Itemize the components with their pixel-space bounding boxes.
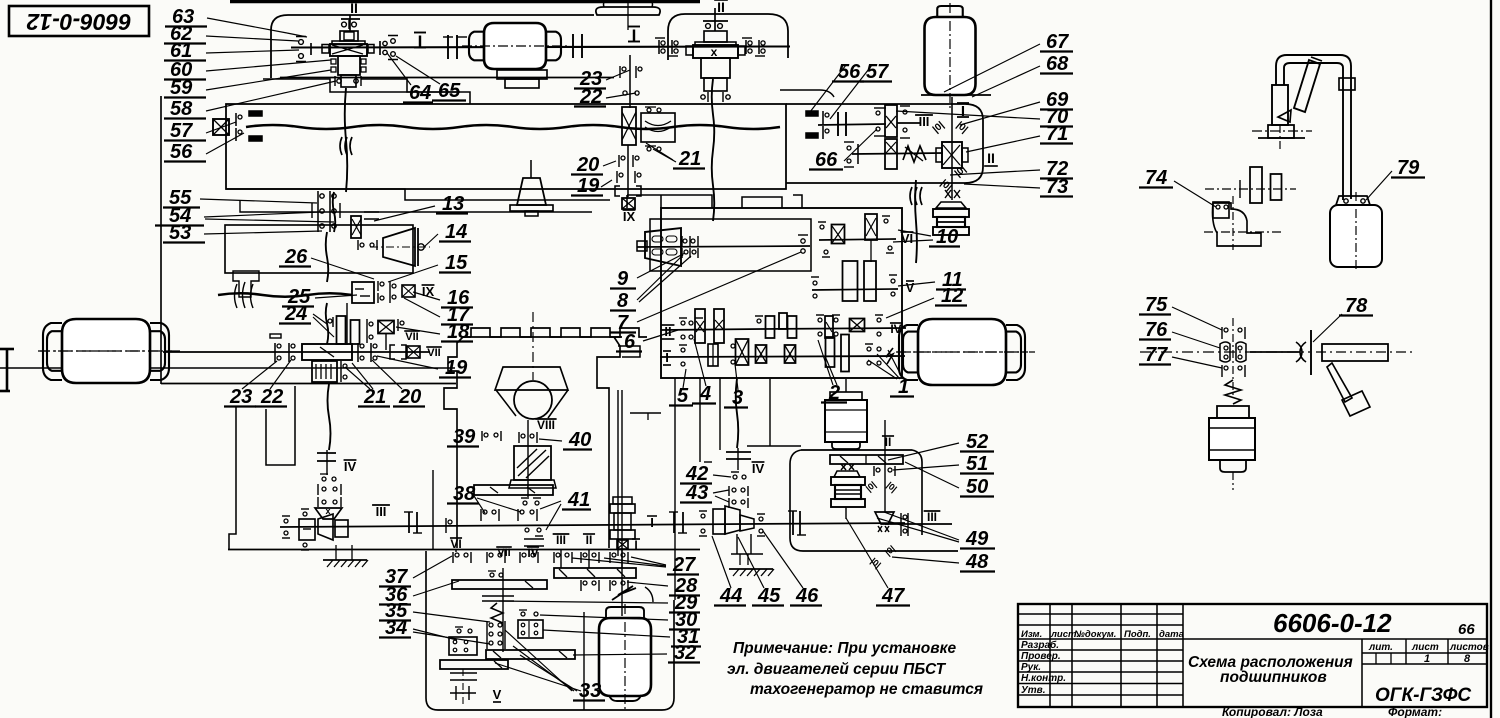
svg-text:33: 33	[579, 680, 601, 702]
svg-text:56: 56	[170, 141, 193, 163]
leader line	[200, 199, 317, 203]
feed box legs	[674, 378, 676, 600]
leader line	[546, 504, 561, 530]
svg-text:листов: листов	[1449, 642, 1489, 653]
scan artifact top edge	[230, 0, 700, 3]
bearing row under	[357, 240, 359, 250]
leader line	[896, 111, 1040, 119]
top bearing row	[1221, 327, 1223, 339]
leader line	[810, 65, 846, 112]
shaft stub and handle 78	[1250, 351, 1300, 353]
svg-text:71: 71	[1046, 123, 1068, 145]
svg-text:20: 20	[576, 154, 599, 176]
lit list listov row	[1361, 639, 1363, 707]
circles above bar1	[490, 573, 494, 577]
svg-text:Разраб.: Разраб.	[1021, 639, 1059, 651]
svg-text:39: 39	[453, 426, 476, 448]
leader line	[604, 558, 666, 566]
svg-text:48: 48	[965, 551, 989, 573]
svg-text:Рук.: Рук.	[1021, 662, 1041, 673]
pedestal under spindle band	[530, 160, 532, 178]
svg-text:лит.: лит.	[1368, 642, 1393, 653]
zigzag lightning	[612, 586, 636, 600]
leader line	[606, 93, 636, 98]
couplings below	[450, 672, 477, 674]
shaft with wavy break line	[218, 293, 352, 297]
left block with circles	[449, 637, 477, 655]
leader line	[830, 65, 872, 119]
svg-text:II: II	[664, 324, 671, 339]
bevel gearbox B1 upper rect	[340, 31, 358, 41]
top housing outline	[271, 15, 594, 78]
leader line	[311, 258, 374, 279]
gear/clutch X	[785, 345, 796, 363]
title block frame	[1018, 604, 1487, 707]
leader line	[388, 265, 438, 282]
B2 lower rects	[701, 58, 730, 78]
boxed bearing block	[518, 620, 543, 638]
leader line	[972, 66, 1040, 97]
leader line	[898, 282, 935, 286]
svg-text:21: 21	[678, 148, 701, 170]
svg-text:45: 45	[757, 585, 781, 607]
motor M8 detail	[1217, 406, 1249, 418]
leader line	[606, 70, 630, 80]
svg-text:27: 27	[672, 554, 696, 576]
motor centerline	[40, 350, 172, 352]
B2 bottom bearings	[701, 95, 705, 99]
bearing stack VII	[486, 621, 488, 631]
svg-text:78: 78	[1345, 295, 1368, 317]
bearings on II	[873, 466, 875, 476]
leader line	[1172, 307, 1222, 330]
leader line	[495, 663, 581, 691]
svg-text:III: III	[556, 533, 566, 547]
bottom long shaft	[280, 523, 905, 527]
svg-text:2: 2	[828, 382, 840, 404]
bevel gearbox B1 body	[332, 41, 365, 45]
leader line	[206, 81, 336, 111]
B1 bottom bearings	[337, 79, 341, 83]
lower shaft II in head	[852, 153, 943, 154]
gear	[864, 261, 876, 301]
leader line	[572, 558, 666, 567]
break arcs	[235, 282, 254, 308]
gear	[714, 309, 724, 343]
gear	[351, 320, 360, 344]
clutch block on wavy shaft	[352, 282, 374, 303]
motor centerline	[949, 3, 951, 109]
leader line	[893, 240, 933, 242]
bearing pair row1	[486, 552, 488, 563]
leader line	[631, 557, 666, 565]
svg-text:44: 44	[719, 585, 742, 607]
gear	[825, 316, 833, 338]
svg-text:13: 13	[442, 193, 464, 215]
spindle head housing	[226, 104, 786, 189]
bearing right of B1	[379, 41, 381, 55]
shaft II vertical right	[884, 420, 886, 512]
svg-text:VI: VI	[450, 537, 461, 551]
cone pulley with slots	[645, 228, 681, 266]
svg-text:3: 3	[732, 387, 743, 409]
bearing left of B1	[310, 43, 312, 55]
chain/belt wavy line	[328, 384, 331, 450]
leader line	[944, 44, 1040, 92]
bearing cross on M5 shaft	[617, 540, 628, 549]
V bearings	[813, 281, 817, 285]
svg-text:VII: VII	[405, 331, 418, 343]
brush block below clutch	[312, 361, 337, 382]
middle double bearing	[1220, 342, 1230, 362]
leader line	[242, 361, 277, 389]
leader line	[964, 184, 1040, 188]
gear pair VI	[819, 239, 896, 240]
variator plate bearings	[645, 106, 656, 108]
leader line	[313, 314, 327, 324]
motor mount box	[225, 225, 413, 273]
leader line	[499, 601, 668, 603]
gear	[695, 309, 705, 343]
chain/belt wavy line	[345, 88, 348, 192]
bearings left of B2	[658, 40, 660, 54]
tachogenerator T1 under bevel	[936, 202, 966, 208]
leader line	[505, 630, 572, 691]
leader line	[413, 581, 459, 596]
leader line	[520, 655, 577, 691]
left bearings of II	[847, 146, 851, 150]
motor centerline	[624, 604, 626, 710]
leader line	[206, 122, 236, 133]
svg-text:47: 47	[881, 585, 905, 607]
detail: elbow fitting 74	[1205, 188, 1296, 190]
svg-text:19: 19	[445, 357, 468, 379]
chain/belt wavy line	[915, 180, 917, 263]
svg-text:15: 15	[445, 252, 468, 274]
svg-text:IV: IV	[344, 459, 357, 474]
break mark	[340, 137, 342, 155]
svg-text:40: 40	[568, 429, 591, 451]
circles below	[525, 528, 529, 532]
coupling	[572, 34, 574, 58]
svg-text:№докум.: №докум.	[1074, 629, 1116, 640]
bevel gearbox B2 bearing bracket	[703, 20, 728, 22]
chain IV down coupling	[317, 452, 336, 454]
leader line	[374, 206, 435, 221]
leader line	[270, 360, 291, 389]
svg-text:19: 19	[577, 175, 600, 197]
bed to feedbox step	[630, 412, 661, 414]
svg-text:6606-0-12: 6606-0-12	[1273, 608, 1392, 638]
svg-text:64: 64	[409, 82, 431, 104]
gear	[788, 316, 797, 338]
gear	[351, 216, 361, 238]
leader line	[637, 255, 683, 300]
leader line	[352, 363, 373, 389]
support with hatching	[323, 559, 367, 561]
B1 lower rect with cage bearings	[338, 56, 360, 75]
bearings 39 marks	[481, 431, 483, 441]
svg-text:46: 46	[795, 585, 819, 607]
left gearbox outline	[160, 96, 162, 384]
left spindle bearing block	[213, 119, 229, 135]
bearing row 2 right	[580, 580, 582, 591]
gear	[337, 316, 346, 344]
bevel assembly to horizontal	[713, 509, 725, 534]
svg-text:22: 22	[579, 86, 602, 108]
gear	[1250, 167, 1262, 203]
svg-text:IX: IX	[623, 209, 636, 224]
leader line	[763, 531, 803, 588]
leader line	[540, 501, 561, 509]
leader line	[898, 230, 931, 236]
leader line	[413, 292, 440, 300]
dash-dot vertical	[462, 669, 464, 706]
gear bar VIII	[474, 485, 553, 495]
xx marks under	[841, 464, 854, 470]
bearing cross VII	[407, 346, 420, 358]
gear	[832, 225, 845, 244]
bearings under IV coupling	[322, 477, 326, 481]
gear bar 2	[486, 650, 575, 659]
left gearbox double bottom edge	[0, 367, 455, 369]
lower shaft from motor M4	[163, 351, 430, 353]
long clutch housing	[302, 344, 352, 360]
leader line	[396, 327, 440, 334]
leader line	[877, 354, 900, 379]
break mark	[910, 187, 912, 205]
leader line	[735, 364, 738, 390]
leader line	[413, 632, 490, 644]
chain/belt wavy line	[736, 379, 739, 448]
tachogenerator	[835, 485, 861, 499]
svg-text:Подп.: Подп.	[1124, 629, 1151, 640]
leader line	[206, 70, 331, 90]
svg-text:56: 56	[838, 61, 861, 83]
svg-text:52: 52	[966, 431, 988, 453]
svg-text:12: 12	[941, 285, 963, 307]
circles above right group	[523, 501, 527, 505]
leader line	[653, 149, 676, 162]
sheet corner stamp box with rotated drawing number 6606-0-12	[9, 6, 149, 36]
svg-text:4: 4	[699, 383, 711, 405]
slanted cylinder	[1294, 60, 1320, 112]
gear/clutch X	[850, 319, 865, 332]
leader line	[206, 60, 331, 71]
bevel gearbox B1 vertical shaft II	[349, 15, 351, 31]
elbow body	[1213, 203, 1262, 246]
leader line	[313, 317, 334, 337]
coupling IV on VIII line	[524, 538, 544, 540]
leader line	[1313, 314, 1342, 342]
svg-text:57: 57	[170, 120, 193, 142]
gear/clutch X	[736, 339, 749, 365]
leader line	[540, 615, 668, 620]
bevel pair at bottom shaft	[315, 508, 342, 519]
svg-text:79: 79	[1397, 157, 1420, 179]
svg-text:75: 75	[1145, 294, 1168, 316]
cone shaft	[637, 246, 810, 247]
leader line	[892, 557, 959, 563]
svg-text:66: 66	[815, 149, 838, 171]
electric motor (vertical)	[599, 618, 651, 696]
svg-text:II: II	[987, 150, 995, 166]
leader line	[205, 219, 334, 222]
tachogenerator	[937, 217, 965, 227]
gear	[779, 313, 787, 329]
svg-text:ОГК-ГЗФС: ОГК-ГЗФС	[1375, 685, 1471, 706]
vertical stubs row1	[455, 549, 457, 552]
electric motor (vertical)	[925, 17, 976, 95]
svg-text:76: 76	[1145, 319, 1168, 341]
svg-text:68: 68	[1046, 53, 1069, 75]
leader line	[637, 253, 685, 278]
bearings around bevel	[701, 514, 705, 518]
svg-text:38: 38	[453, 483, 476, 505]
svg-text:5: 5	[677, 385, 689, 407]
svg-text:IV: IV	[752, 461, 765, 476]
svg-text:34: 34	[385, 617, 407, 639]
svg-text:подшипников: подшипников	[1220, 669, 1327, 686]
leader line	[206, 36, 298, 41]
bearings above mirror	[518, 432, 520, 443]
leader line	[1174, 181, 1216, 207]
detail: lubricator pipe assembly	[1276, 55, 1351, 88]
leader line	[345, 367, 370, 389]
leader line	[477, 498, 521, 512]
leader line	[712, 536, 731, 588]
leader line	[543, 630, 670, 637]
cone pulley housing	[650, 219, 811, 271]
leader line	[738, 537, 764, 588]
svg-text:57: 57	[866, 61, 889, 83]
svg-text:51: 51	[966, 453, 988, 475]
svg-text:I: I	[665, 350, 669, 365]
leader line	[377, 356, 438, 369]
gearbox top steps	[263, 79, 460, 92]
shaft I	[291, 47, 790, 48]
svg-text:58: 58	[170, 98, 193, 120]
svg-text:VIII: VIII	[537, 418, 555, 432]
right end of spindle: thrust and bearings	[806, 111, 818, 116]
leader line	[413, 556, 452, 578]
svg-text:23: 23	[229, 386, 252, 408]
bearing pair row1	[519, 552, 521, 563]
svg-text:эл. двигателей серии ПБСТ: эл. двигателей серии ПБСТ	[727, 661, 947, 678]
svg-text:II: II	[885, 435, 892, 449]
leader line	[637, 252, 801, 322]
bearing above box	[521, 612, 525, 616]
bevel gearbox B2 body	[704, 31, 727, 42]
pocket outline	[790, 450, 958, 551]
svg-text:II: II	[717, 0, 725, 15]
right housing of head	[786, 104, 983, 183]
gear	[766, 316, 775, 338]
left end block of bottom shaft	[299, 519, 315, 540]
svg-text:Утв.: Утв.	[1021, 685, 1045, 696]
leader line	[601, 180, 612, 187]
leader line	[888, 443, 959, 460]
svg-text:II: II	[350, 0, 358, 16]
svg-text:59: 59	[170, 77, 193, 99]
bearing pair row1	[553, 552, 555, 563]
coupling on IV chain	[726, 451, 751, 453]
svg-text:III: III	[919, 114, 930, 129]
svg-text:Копировал: Лоза: Копировал: Лоза	[1222, 705, 1323, 718]
leader line	[950, 170, 1040, 175]
gear	[622, 107, 636, 145]
gear	[841, 335, 849, 372]
M5 screw shaft	[621, 390, 623, 616]
svg-text:67: 67	[1046, 31, 1069, 53]
bearing on III	[900, 513, 902, 536]
svg-text:Изм.: Изм.	[1021, 629, 1042, 640]
leader line	[893, 465, 959, 470]
svg-text:53: 53	[169, 222, 191, 244]
bearings right of clutch	[377, 281, 379, 291]
svg-text:50: 50	[966, 476, 988, 498]
zigzag to motor	[886, 348, 893, 364]
gear/clutch X	[378, 321, 394, 334]
svg-text:43: 43	[685, 482, 708, 504]
saddle V-cradle	[496, 390, 568, 418]
shaft IV right part	[762, 328, 906, 329]
housing step below left	[226, 189, 610, 200]
leader line	[206, 50, 299, 53]
title block vertical lines left table	[1049, 604, 1051, 707]
bevel V down	[875, 512, 894, 524]
svg-text:III: III	[927, 510, 937, 524]
bottom cluster enclosure	[426, 551, 674, 710]
leader line	[844, 129, 877, 161]
line under M2	[921, 94, 991, 96]
oil tank	[1330, 205, 1382, 267]
mirror box	[514, 446, 551, 480]
scan artifact left edge	[0, 348, 14, 351]
leader line	[868, 360, 897, 379]
svg-text:1: 1	[1424, 653, 1430, 665]
leader line	[206, 133, 244, 154]
shaft with wavy break line	[246, 125, 780, 129]
svg-text:VII: VII	[427, 347, 440, 359]
bearings under bar	[480, 509, 482, 521]
coupling	[447, 35, 449, 59]
left gear bar 1	[452, 580, 547, 589]
svg-text:73: 73	[1046, 176, 1068, 198]
bearing	[445, 518, 447, 533]
variator curved slot plate	[641, 113, 675, 142]
vertical shaft IX below variator	[627, 145, 629, 197]
chain/belt wavy line	[333, 192, 336, 232]
variator vertical shaft upper bearings	[629, 55, 631, 108]
leader line	[207, 18, 287, 33]
leader line	[715, 496, 729, 502]
bevel box X on shaft II	[942, 142, 962, 168]
bed left profile	[444, 337, 463, 548]
chain/belt wavy line	[712, 79, 715, 221]
svg-text:Н.контр.: Н.контр.	[1021, 673, 1066, 684]
svg-text:6606-0-12: 6606-0-12	[26, 9, 131, 35]
svg-text:III: III	[376, 504, 387, 519]
oil cup on housing top	[596, 7, 660, 15]
bearing cross IX2	[402, 285, 415, 297]
leader line	[573, 654, 667, 655]
leader line	[404, 298, 440, 317]
svg-text:22: 22	[260, 386, 283, 408]
svg-text:I: I	[650, 515, 654, 530]
svg-text:74: 74	[1145, 167, 1167, 189]
leader line	[539, 439, 562, 441]
